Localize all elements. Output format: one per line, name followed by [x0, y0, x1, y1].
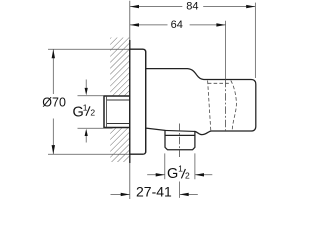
- svg-text:G: G: [167, 166, 178, 182]
- svg-text:Ø70: Ø70: [42, 95, 66, 109]
- svg-text:2: 2: [90, 107, 95, 117]
- svg-text:84: 84: [186, 1, 198, 13]
- svg-text:27-41: 27-41: [136, 184, 172, 200]
- svg-text:1: 1: [178, 163, 183, 173]
- svg-text:64: 64: [171, 19, 183, 31]
- svg-text:2: 2: [185, 171, 190, 181]
- svg-text:1: 1: [83, 103, 88, 113]
